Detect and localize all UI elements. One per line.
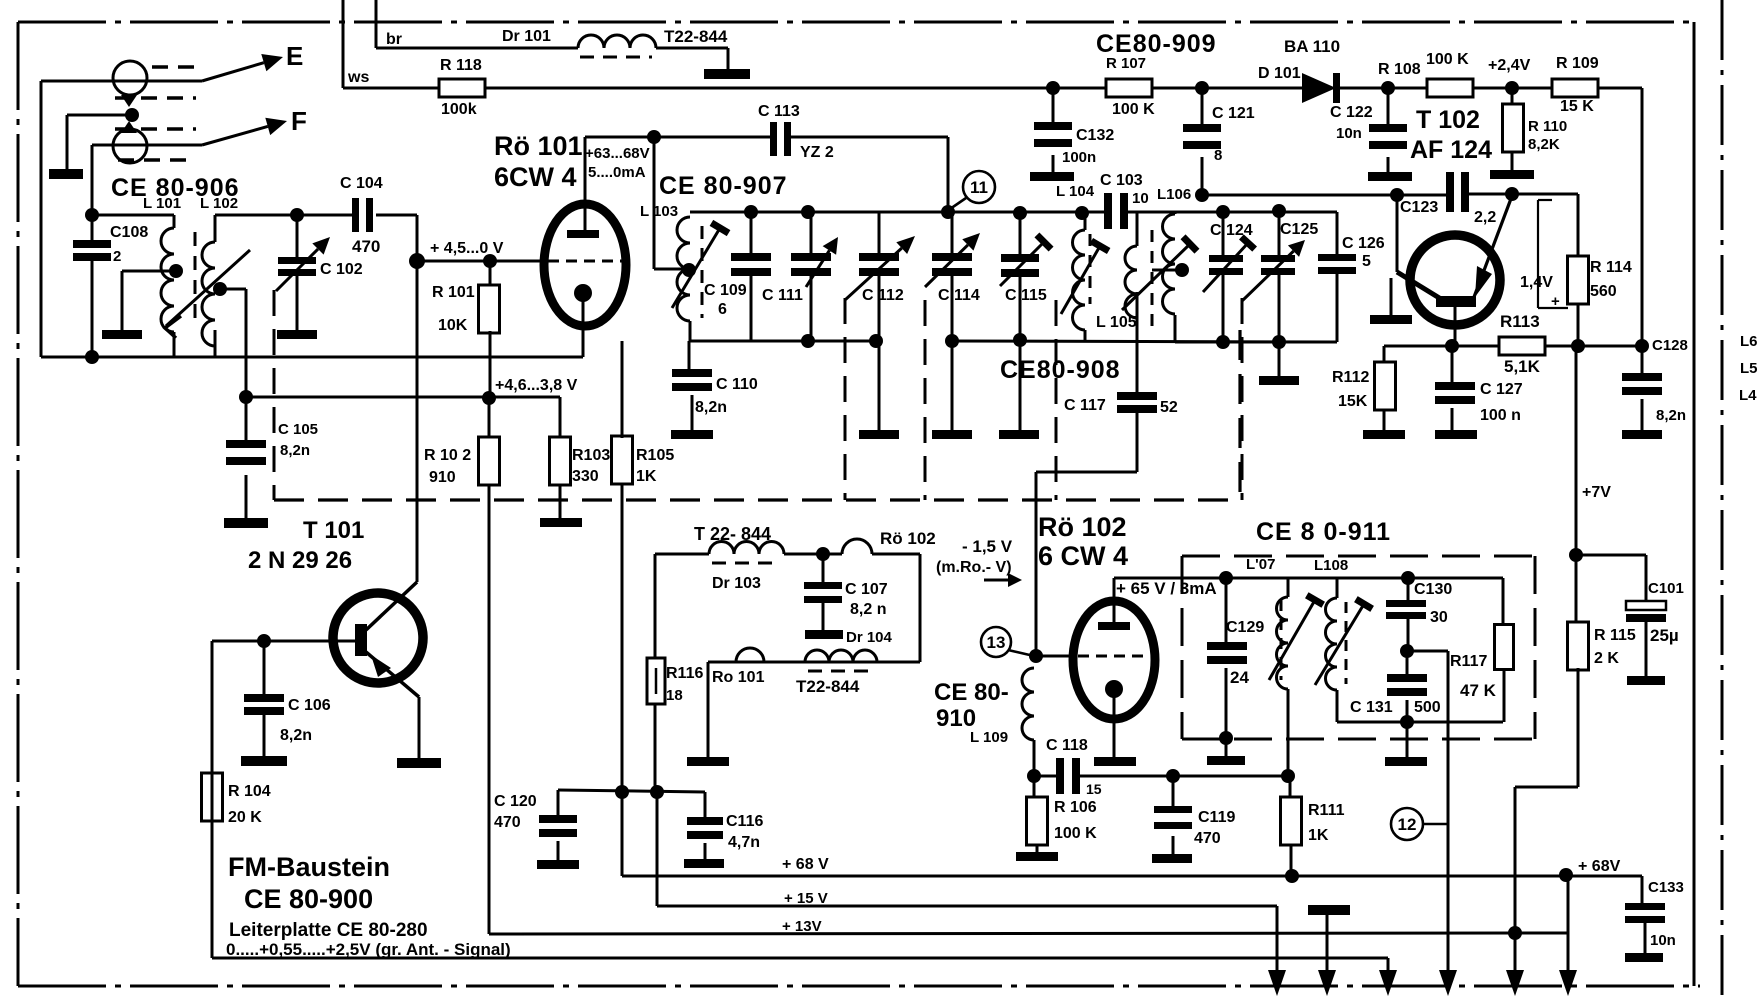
svg-text:T 22- 844: T 22- 844 <box>694 524 771 544</box>
svg-text:E: E <box>286 41 303 71</box>
svg-text:C 109: C 109 <box>704 282 747 299</box>
svg-text:L 104: L 104 <box>1056 183 1095 200</box>
svg-text:Rö 102: Rö 102 <box>880 529 936 548</box>
svg-text:R 109: R 109 <box>1556 55 1599 72</box>
svg-text:R 108: R 108 <box>1378 61 1421 78</box>
svg-text:YZ 2: YZ 2 <box>800 144 834 161</box>
svg-text:L'07: L'07 <box>1246 556 1275 573</box>
svg-text:13: 13 <box>987 633 1006 652</box>
svg-text:C 110: C 110 <box>716 376 758 393</box>
svg-text:R 106: R 106 <box>1054 799 1097 816</box>
svg-text:Dr 104: Dr 104 <box>846 629 893 646</box>
svg-text:1K: 1K <box>1308 827 1329 844</box>
svg-text:+ 68V: + 68V <box>1578 858 1621 875</box>
svg-text:8: 8 <box>1214 147 1222 164</box>
svg-text:BA 110: BA 110 <box>1284 37 1340 56</box>
svg-text:C108: C108 <box>110 224 148 241</box>
svg-text:100 n: 100 n <box>1480 407 1521 424</box>
svg-text:L 103: L 103 <box>640 203 678 220</box>
svg-text:910: 910 <box>936 705 976 732</box>
svg-text:Rö 101: Rö 101 <box>494 131 583 161</box>
svg-text:500: 500 <box>1414 699 1441 716</box>
svg-text:1K: 1K <box>636 468 657 485</box>
svg-text:11: 11 <box>970 178 988 197</box>
svg-text:C 114: C 114 <box>938 287 980 304</box>
svg-text:25µ: 25µ <box>1650 626 1679 645</box>
svg-text:Leiterplatte CE 80-280: Leiterplatte CE 80-280 <box>229 920 428 941</box>
svg-text:- 1,5 V: - 1,5 V <box>962 537 1013 556</box>
svg-text:L 109: L 109 <box>970 729 1008 746</box>
svg-text:C 112: C 112 <box>862 287 904 304</box>
svg-text:100 K: 100 K <box>1112 101 1155 118</box>
svg-text:FM-Baustein: FM-Baustein <box>228 852 390 882</box>
svg-text:6 CW 4: 6 CW 4 <box>1038 541 1128 571</box>
svg-text:C 113: C 113 <box>758 103 800 120</box>
svg-text:L4: L4 <box>1739 387 1757 404</box>
svg-text:R 10 2: R 10 2 <box>424 447 471 464</box>
svg-text:R 107: R 107 <box>1106 55 1146 72</box>
svg-text:+ 65 V / 3mA: + 65 V / 3mA <box>1116 579 1217 598</box>
svg-text:C101: C101 <box>1648 580 1684 597</box>
svg-text:Ro 101: Ro 101 <box>712 669 765 686</box>
svg-text:C 104: C 104 <box>340 175 383 192</box>
svg-text:CE 80-900: CE 80-900 <box>244 884 373 914</box>
svg-text:F: F <box>291 106 307 136</box>
svg-text:8,2n: 8,2n <box>280 442 310 459</box>
svg-text:8,2n: 8,2n <box>1656 407 1686 424</box>
svg-text:C 107: C 107 <box>845 581 888 598</box>
svg-text:C116: C116 <box>726 813 763 830</box>
svg-text:100 K: 100 K <box>1054 825 1097 842</box>
svg-text:4,7n: 4,7n <box>728 834 760 851</box>
svg-text:R 114: R 114 <box>1590 259 1632 276</box>
svg-text:47 K: 47 K <box>1460 681 1497 700</box>
svg-text:L5: L5 <box>1740 360 1758 377</box>
svg-text:C 126: C 126 <box>1342 235 1385 252</box>
svg-text:2 K: 2 K <box>1594 650 1619 667</box>
svg-text:2 N 29 26: 2 N 29 26 <box>248 547 352 574</box>
svg-text:R111: R111 <box>1308 802 1345 819</box>
svg-text:L6: L6 <box>1740 333 1758 350</box>
svg-text:24: 24 <box>1230 668 1249 687</box>
svg-text:C 117: C 117 <box>1064 397 1106 414</box>
svg-text:R 115: R 115 <box>1594 627 1636 644</box>
svg-text:+4,6...3,8 V: +4,6...3,8 V <box>495 377 578 394</box>
svg-text:AF 124: AF 124 <box>1410 136 1492 164</box>
svg-text:8,2n: 8,2n <box>280 727 312 744</box>
svg-text:330: 330 <box>572 468 599 485</box>
svg-text:2: 2 <box>113 248 121 265</box>
svg-text:+: + <box>1551 293 1560 310</box>
svg-text:10n: 10n <box>1650 932 1676 949</box>
svg-text:8,2 n: 8,2 n <box>850 601 886 618</box>
svg-text:C 106: C 106 <box>288 697 331 714</box>
svg-text:R 104: R 104 <box>228 783 271 800</box>
svg-text:R 110: R 110 <box>1528 118 1567 135</box>
svg-text:10n: 10n <box>1336 125 1362 142</box>
svg-text:C 124: C 124 <box>1210 222 1253 239</box>
svg-text:470: 470 <box>352 237 380 256</box>
svg-text:C119: C119 <box>1198 809 1235 826</box>
svg-text:Rö 102: Rö 102 <box>1038 512 1127 542</box>
svg-text:C 102: C 102 <box>320 261 363 278</box>
svg-text:C 118: C 118 <box>1046 737 1088 754</box>
svg-text:100n: 100n <box>1062 149 1096 166</box>
svg-text:C 115: C 115 <box>1005 287 1047 304</box>
svg-text:15K: 15K <box>1338 393 1368 410</box>
svg-text:2,2: 2,2 <box>1474 209 1496 226</box>
svg-text:C 127: C 127 <box>1480 381 1523 398</box>
svg-text:L 105: L 105 <box>1096 314 1137 331</box>
svg-text:6CW 4: 6CW 4 <box>494 162 577 192</box>
svg-text:R113: R113 <box>1500 312 1540 331</box>
svg-text:(m.Ro.- V): (m.Ro.- V) <box>936 559 1012 576</box>
svg-text:C129: C129 <box>1226 619 1264 636</box>
svg-text:C128: C128 <box>1652 337 1688 354</box>
svg-text:C 105: C 105 <box>278 421 318 438</box>
svg-text:470: 470 <box>494 814 521 831</box>
svg-text:8,2n: 8,2n <box>695 399 727 416</box>
svg-text:5....0mA: 5....0mA <box>588 164 646 181</box>
svg-text:C 103: C 103 <box>1100 172 1143 189</box>
svg-text:15: 15 <box>1086 781 1102 797</box>
svg-text:C133: C133 <box>1648 879 1684 896</box>
svg-text:L 102: L 102 <box>200 195 238 212</box>
svg-text:L106: L106 <box>1157 186 1191 203</box>
svg-text:C125: C125 <box>1280 221 1318 238</box>
svg-text:+63...68V: +63...68V <box>585 145 650 162</box>
svg-text:100 K: 100 K <box>1426 51 1469 68</box>
svg-text:R 101: R 101 <box>432 284 475 301</box>
svg-text:100k: 100k <box>441 101 477 118</box>
svg-text:C 131: C 131 <box>1350 699 1393 716</box>
svg-text:T22-844: T22-844 <box>664 27 728 46</box>
svg-text:C 120: C 120 <box>494 793 537 810</box>
svg-text:0.....+0,55.....+2,5V (gr. An: 0.....+0,55.....+2,5V (gr. Ant. - Signal… <box>226 940 511 959</box>
svg-text:1,4V: 1,4V <box>1520 274 1553 291</box>
svg-text:C 121: C 121 <box>1212 105 1255 122</box>
svg-text:C 111: C 111 <box>762 287 803 304</box>
svg-text:18: 18 <box>666 687 683 704</box>
svg-text:D 101: D 101 <box>1258 65 1301 82</box>
svg-text:R116: R116 <box>666 665 703 682</box>
svg-text:+2,4V: +2,4V <box>1488 57 1531 74</box>
svg-text:CE 80-: CE 80- <box>934 679 1009 706</box>
svg-text:5,1K: 5,1K <box>1504 357 1541 376</box>
svg-text:20 K: 20 K <box>228 809 262 826</box>
svg-text:+ 4,5...0 V: + 4,5...0 V <box>430 240 504 257</box>
svg-text:6: 6 <box>718 301 727 318</box>
svg-text:br: br <box>386 31 402 48</box>
svg-text:+ 13V: + 13V <box>782 918 822 935</box>
svg-text:ws: ws <box>347 69 369 86</box>
svg-text:R112: R112 <box>1332 369 1369 386</box>
svg-text:CE 80-907: CE 80-907 <box>659 172 788 200</box>
svg-text:52: 52 <box>1160 399 1178 416</box>
svg-text:910: 910 <box>429 469 456 486</box>
svg-text:30: 30 <box>1430 609 1448 626</box>
svg-text:R 118: R 118 <box>440 57 482 74</box>
svg-text:L 101: L 101 <box>143 195 181 212</box>
svg-text:C 122: C 122 <box>1330 104 1373 121</box>
svg-text:C123: C123 <box>1400 199 1438 216</box>
svg-text:Dr 103: Dr 103 <box>712 575 761 592</box>
svg-text:560: 560 <box>1590 283 1617 300</box>
svg-text:12: 12 <box>1398 815 1417 834</box>
svg-text:+ 15 V: + 15 V <box>784 890 828 907</box>
svg-text:+ 68 V: + 68 V <box>782 856 829 873</box>
svg-text:C132: C132 <box>1076 127 1114 144</box>
svg-text:15 K: 15 K <box>1560 98 1594 115</box>
svg-text:10K: 10K <box>438 317 468 334</box>
svg-text:Dr 101: Dr 101 <box>502 28 551 45</box>
svg-text:T22-844: T22-844 <box>796 677 860 696</box>
svg-text:5: 5 <box>1362 253 1371 270</box>
svg-text:CE 8 0-911: CE 8 0-911 <box>1256 518 1391 546</box>
svg-text:R105: R105 <box>636 447 674 464</box>
svg-text:L108: L108 <box>1314 557 1348 574</box>
svg-text:R103: R103 <box>572 447 610 464</box>
svg-text:+7V: +7V <box>1582 484 1611 501</box>
svg-text:CE80-909: CE80-909 <box>1096 30 1217 58</box>
svg-text:10: 10 <box>1132 190 1149 207</box>
svg-text:R117: R117 <box>1450 653 1487 670</box>
svg-text:8,2K: 8,2K <box>1528 136 1560 153</box>
svg-text:CE80-908: CE80-908 <box>1000 356 1121 384</box>
svg-text:470: 470 <box>1194 830 1221 847</box>
svg-text:T 101: T 101 <box>303 517 364 544</box>
svg-text:C130: C130 <box>1414 581 1452 598</box>
svg-text:T 102: T 102 <box>1416 106 1480 134</box>
